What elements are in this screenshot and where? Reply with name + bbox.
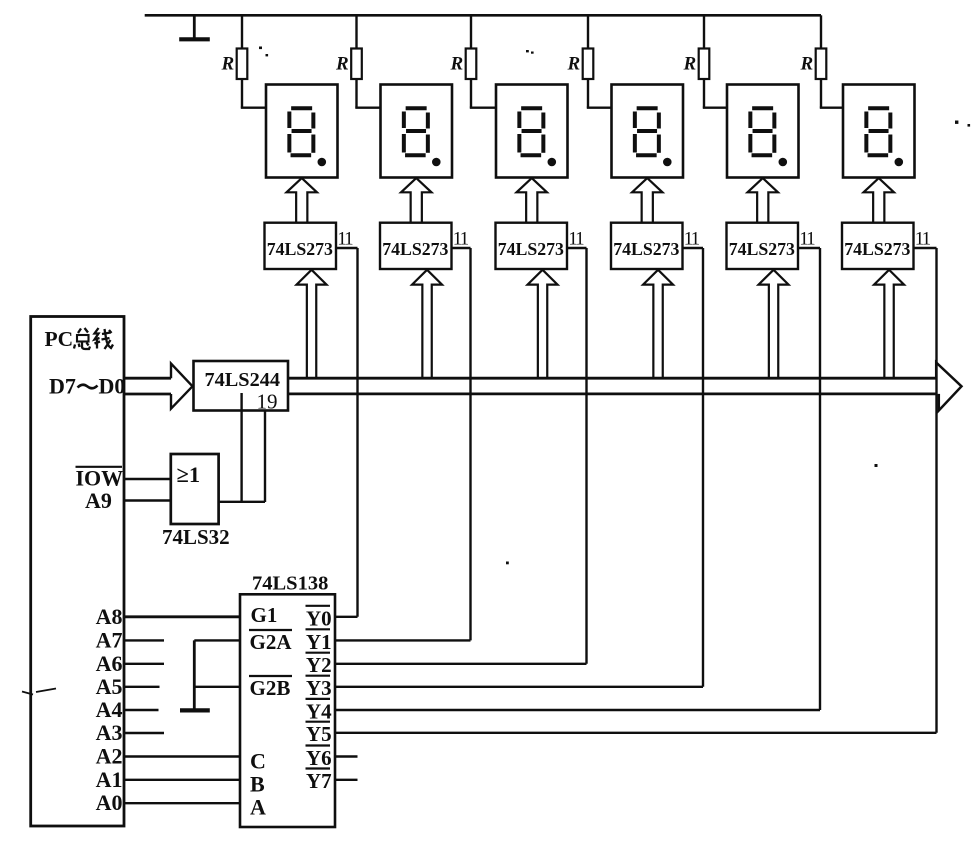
- wire: Y0 output to riser: [335, 616, 358, 618]
- display DS6 (7-segment LED): [843, 85, 915, 178]
- resistor R6 (value R): [800, 49, 827, 80]
- pin Y7 (active low) of 74LS138: [306, 769, 332, 794]
- wire: A2 from PC bus: [124, 755, 240, 757]
- display DS1 (7-segment LED): [266, 85, 338, 178]
- wire: resistor R5 to display DS5: [703, 79, 727, 108]
- node A4 label: [96, 697, 123, 722]
- svg-text:R: R: [335, 54, 349, 75]
- node A8 label: [96, 604, 123, 629]
- svg-text:74LS273: 74LS273: [729, 239, 795, 259]
- svg-text:11: 11: [799, 229, 815, 250]
- svg-text:A9: A9: [85, 488, 112, 513]
- latch U2 74LS273: [380, 223, 452, 269]
- wire: G2A to ground: [194, 639, 240, 641]
- svg-text:11: 11: [337, 229, 353, 250]
- bus arrow: data bus to 74LS273 #3 inputs: [528, 270, 558, 378]
- resistor R1 (value R): [221, 49, 248, 80]
- bus arrow: 74LS273 #1 output to display DS1: [287, 178, 317, 223]
- pin A of 74LS138: [250, 795, 266, 820]
- data bus (double line with arrowhead, from 74LS244 to right edge): [288, 363, 962, 411]
- PC bus box (PC&#24635;&#32447;): [31, 317, 124, 827]
- wire: Y2 from 74LS138 up to pin 11 of 74LS273 #3: [585, 248, 587, 664]
- svg-text:Y3: Y3: [306, 676, 332, 700]
- svg-text:11: 11: [684, 229, 700, 250]
- pin 11 of 74LS273 #4: [683, 229, 704, 250]
- latch U1 74LS273: [265, 223, 337, 269]
- display DS4 (7-segment LED): [612, 85, 684, 178]
- svg-text:74LS138: 74LS138: [252, 573, 328, 595]
- pin Y2 (active low) of 74LS138: [306, 653, 332, 678]
- wire: rail to resistor R1: [241, 15, 243, 49]
- pin B of 74LS138: [250, 772, 265, 797]
- node A1 label: [96, 767, 123, 792]
- svg-text:74LS273: 74LS273: [267, 239, 333, 259]
- decoder U9 74LS138: [240, 573, 335, 828]
- svg-text:74LS273: 74LS273: [382, 239, 448, 259]
- resistor R2 (value R): [335, 49, 362, 80]
- pin 19 of 74LS244 (output enable): [242, 390, 278, 503]
- svg-text:A2: A2: [96, 744, 123, 769]
- node A2 label: [96, 744, 123, 769]
- pin G1 of 74LS138: [251, 603, 278, 627]
- pin 11 of 74LS273 #1: [336, 229, 358, 250]
- wire: rail to resistor R2: [355, 15, 357, 49]
- wire: Y3 from 74LS138 up to pin 11 of 74LS273 #4: [702, 248, 704, 687]
- wire: rail to resistor R4: [587, 15, 589, 49]
- bus arrow: data bus to 74LS273 #2 inputs: [412, 270, 442, 378]
- wire: Y1 from 74LS138 up to pin 11 of 74LS273 #2: [469, 248, 471, 640]
- svg-text:74LS244: 74LS244: [205, 369, 281, 391]
- svg-text:A5: A5: [96, 674, 123, 699]
- ground (G2A/G2B enable): [180, 640, 210, 710]
- bus arrow: data bus to 74LS273 #5 inputs: [759, 270, 789, 378]
- wire: G2B to ground: [194, 686, 240, 688]
- buffer U7 74LS244: [194, 361, 289, 411]
- svg-text:11: 11: [568, 229, 584, 250]
- pin Y3 (active low) of 74LS138: [306, 676, 332, 701]
- bus arrow: data bus to 74LS273 #6 inputs: [874, 270, 904, 378]
- resistor R5 (value R): [683, 49, 710, 80]
- node A5 label: [96, 674, 123, 699]
- svg-text:A3: A3: [96, 720, 123, 745]
- pin Y1 (active low) of 74LS138: [306, 629, 332, 654]
- bus arrow: 74LS273 #2 output to display DS2: [401, 178, 431, 223]
- bus arrow: data bus to 74LS273 #4 inputs: [643, 270, 673, 378]
- wire: Y5 from 74LS138 up to pin 11 of 74LS273 #6: [935, 248, 937, 733]
- bus arrow: 74LS273 #5 output to display DS5: [748, 178, 778, 223]
- wire: Y2 output to riser: [335, 663, 587, 665]
- latch U5 74LS273: [727, 223, 799, 269]
- svg-text:Y1: Y1: [306, 630, 332, 654]
- stray scan specks (photocopy noise): [22, 47, 970, 695]
- svg-text:74LS273: 74LS273: [844, 239, 910, 259]
- svg-text:A8: A8: [96, 604, 123, 629]
- svg-text:A7: A7: [96, 627, 123, 652]
- wire: Y6 stub: [335, 755, 358, 757]
- wire: resistor R3 to display DS3: [470, 79, 496, 108]
- OR gate U8 74LS32 (&#8805;1): [162, 454, 230, 549]
- svg-text:R: R: [567, 54, 581, 75]
- svg-text:PC: PC: [45, 327, 74, 351]
- svg-text:A6: A6: [96, 651, 123, 676]
- wire: Y1 output to riser: [335, 639, 471, 641]
- latch U6 74LS273: [842, 223, 914, 269]
- resistor R4 (value R): [567, 49, 594, 80]
- svg-text:D7: D7: [49, 374, 76, 399]
- svg-text:11: 11: [915, 229, 931, 250]
- wire: rail to resistor R6: [820, 15, 822, 49]
- node D7~D0 label: [49, 374, 125, 399]
- wire: Y5 output to riser: [335, 732, 937, 734]
- wire: Y4 from 74LS138 up to pin 11 of 74LS273 #5: [819, 248, 821, 710]
- wire: A3 from PC bus: [124, 732, 164, 734]
- svg-text:R: R: [800, 54, 814, 75]
- svg-text:D0: D0: [99, 374, 126, 399]
- svg-text:Y5: Y5: [306, 722, 332, 746]
- wire: A7 from PC bus: [124, 639, 164, 641]
- svg-text:74LS273: 74LS273: [613, 239, 679, 259]
- bus arrow: data bus to 74LS273 #1 inputs: [297, 270, 327, 378]
- pin 11 of 74LS273 #5: [798, 229, 820, 250]
- wire: resistor R1 to display DS1: [241, 79, 266, 108]
- pin Y5 (active low) of 74LS138: [306, 722, 332, 747]
- display DS2 (7-segment LED): [381, 85, 453, 178]
- svg-text:11: 11: [453, 229, 469, 250]
- svg-text:G2A: G2A: [250, 630, 293, 654]
- pin 11 of 74LS273 #3: [567, 229, 587, 250]
- bus arrow: 74LS273 #3 output to display DS3: [517, 178, 547, 223]
- svg-text:Y4: Y4: [306, 699, 332, 723]
- latch U4 74LS273: [611, 223, 683, 269]
- pin G2B (active low) of 74LS138: [249, 676, 292, 700]
- svg-text:A4: A4: [96, 697, 123, 722]
- svg-text:G1: G1: [251, 603, 278, 627]
- pin 11 of 74LS273 #2: [452, 229, 471, 250]
- svg-text:74LS273: 74LS273: [498, 239, 564, 259]
- wire: A4 from PC bus: [124, 709, 159, 711]
- svg-text:R: R: [683, 54, 697, 75]
- wire: resistor R4 to display DS4: [587, 79, 612, 108]
- node A0 label: [96, 790, 123, 815]
- wire: resistor R2 to display DS2: [355, 79, 380, 108]
- node A3 label: [96, 720, 123, 745]
- wire: Y4 output to riser: [335, 709, 820, 711]
- wire: 74LS32 output to 74LS244 pins 1,19: [219, 501, 266, 503]
- node A7 label: [96, 627, 123, 652]
- pin C of 74LS138: [250, 749, 266, 774]
- node A9: [85, 488, 112, 513]
- svg-text:Y2: Y2: [306, 653, 332, 677]
- wire: rail to resistor R3: [470, 15, 472, 49]
- pin Y6 (active low) of 74LS138: [306, 746, 332, 771]
- svg-text:Y7: Y7: [306, 769, 332, 793]
- svg-text:19: 19: [257, 390, 278, 414]
- bus arrow: 74LS273 #4 output to display DS4: [632, 178, 662, 223]
- wire: A8 from PC bus: [124, 615, 240, 618]
- wire: A1 from PC bus: [124, 779, 240, 781]
- display DS5 (7-segment LED): [727, 85, 799, 178]
- svg-text:G2B: G2B: [250, 676, 291, 700]
- wire: Y3 output to riser: [335, 686, 703, 688]
- svg-text:A: A: [250, 795, 266, 820]
- wire: top power rail: [145, 14, 821, 17]
- svg-text:Y6: Y6: [306, 746, 332, 770]
- svg-text:R: R: [450, 54, 464, 75]
- svg-text:IOW: IOW: [76, 466, 124, 491]
- wire: A0 from PC bus: [124, 802, 240, 804]
- wire: resistor R6 to display DS6: [820, 79, 843, 108]
- svg-text:74LS32: 74LS32: [162, 525, 230, 549]
- bus arrow: D7~D0 from PC bus to 74LS244: [124, 364, 193, 409]
- svg-text:A1: A1: [96, 767, 123, 792]
- svg-text:C: C: [250, 749, 266, 774]
- node IOW (active low): [76, 466, 124, 491]
- svg-text:A0: A0: [96, 790, 123, 815]
- svg-text:B: B: [250, 772, 265, 797]
- svg-text:≥1: ≥1: [177, 462, 201, 487]
- node A6 label: [96, 651, 123, 676]
- wire: rail to resistor R5: [703, 15, 705, 49]
- wire: A6 from PC bus: [124, 663, 164, 665]
- display DS3 (7-segment LED): [496, 85, 568, 178]
- pin Y4 (active low) of 74LS138: [306, 699, 333, 724]
- pin G2A (active low) of 74LS138: [249, 630, 292, 654]
- ground (top-left): [179, 15, 210, 39]
- bus arrow: 74LS273 #6 output to display DS6: [864, 178, 894, 223]
- wire: A9 to 74LS32: [124, 499, 171, 501]
- latch U3 74LS273: [496, 223, 568, 269]
- wire: A5 from PC bus: [124, 686, 160, 688]
- wire: Y0 from 74LS138 up to pin 11 of 74LS273 #1: [356, 248, 358, 617]
- resistor R3 (value R): [450, 49, 477, 80]
- wire: Y7 stub: [335, 779, 358, 781]
- pin 11 of 74LS273 #6: [914, 229, 937, 250]
- pin Y0 (active low) of 74LS138: [306, 606, 332, 631]
- svg-text:Y0: Y0: [306, 606, 332, 630]
- svg-text:R: R: [221, 54, 235, 75]
- wire: IOW to 74LS32: [124, 478, 171, 480]
